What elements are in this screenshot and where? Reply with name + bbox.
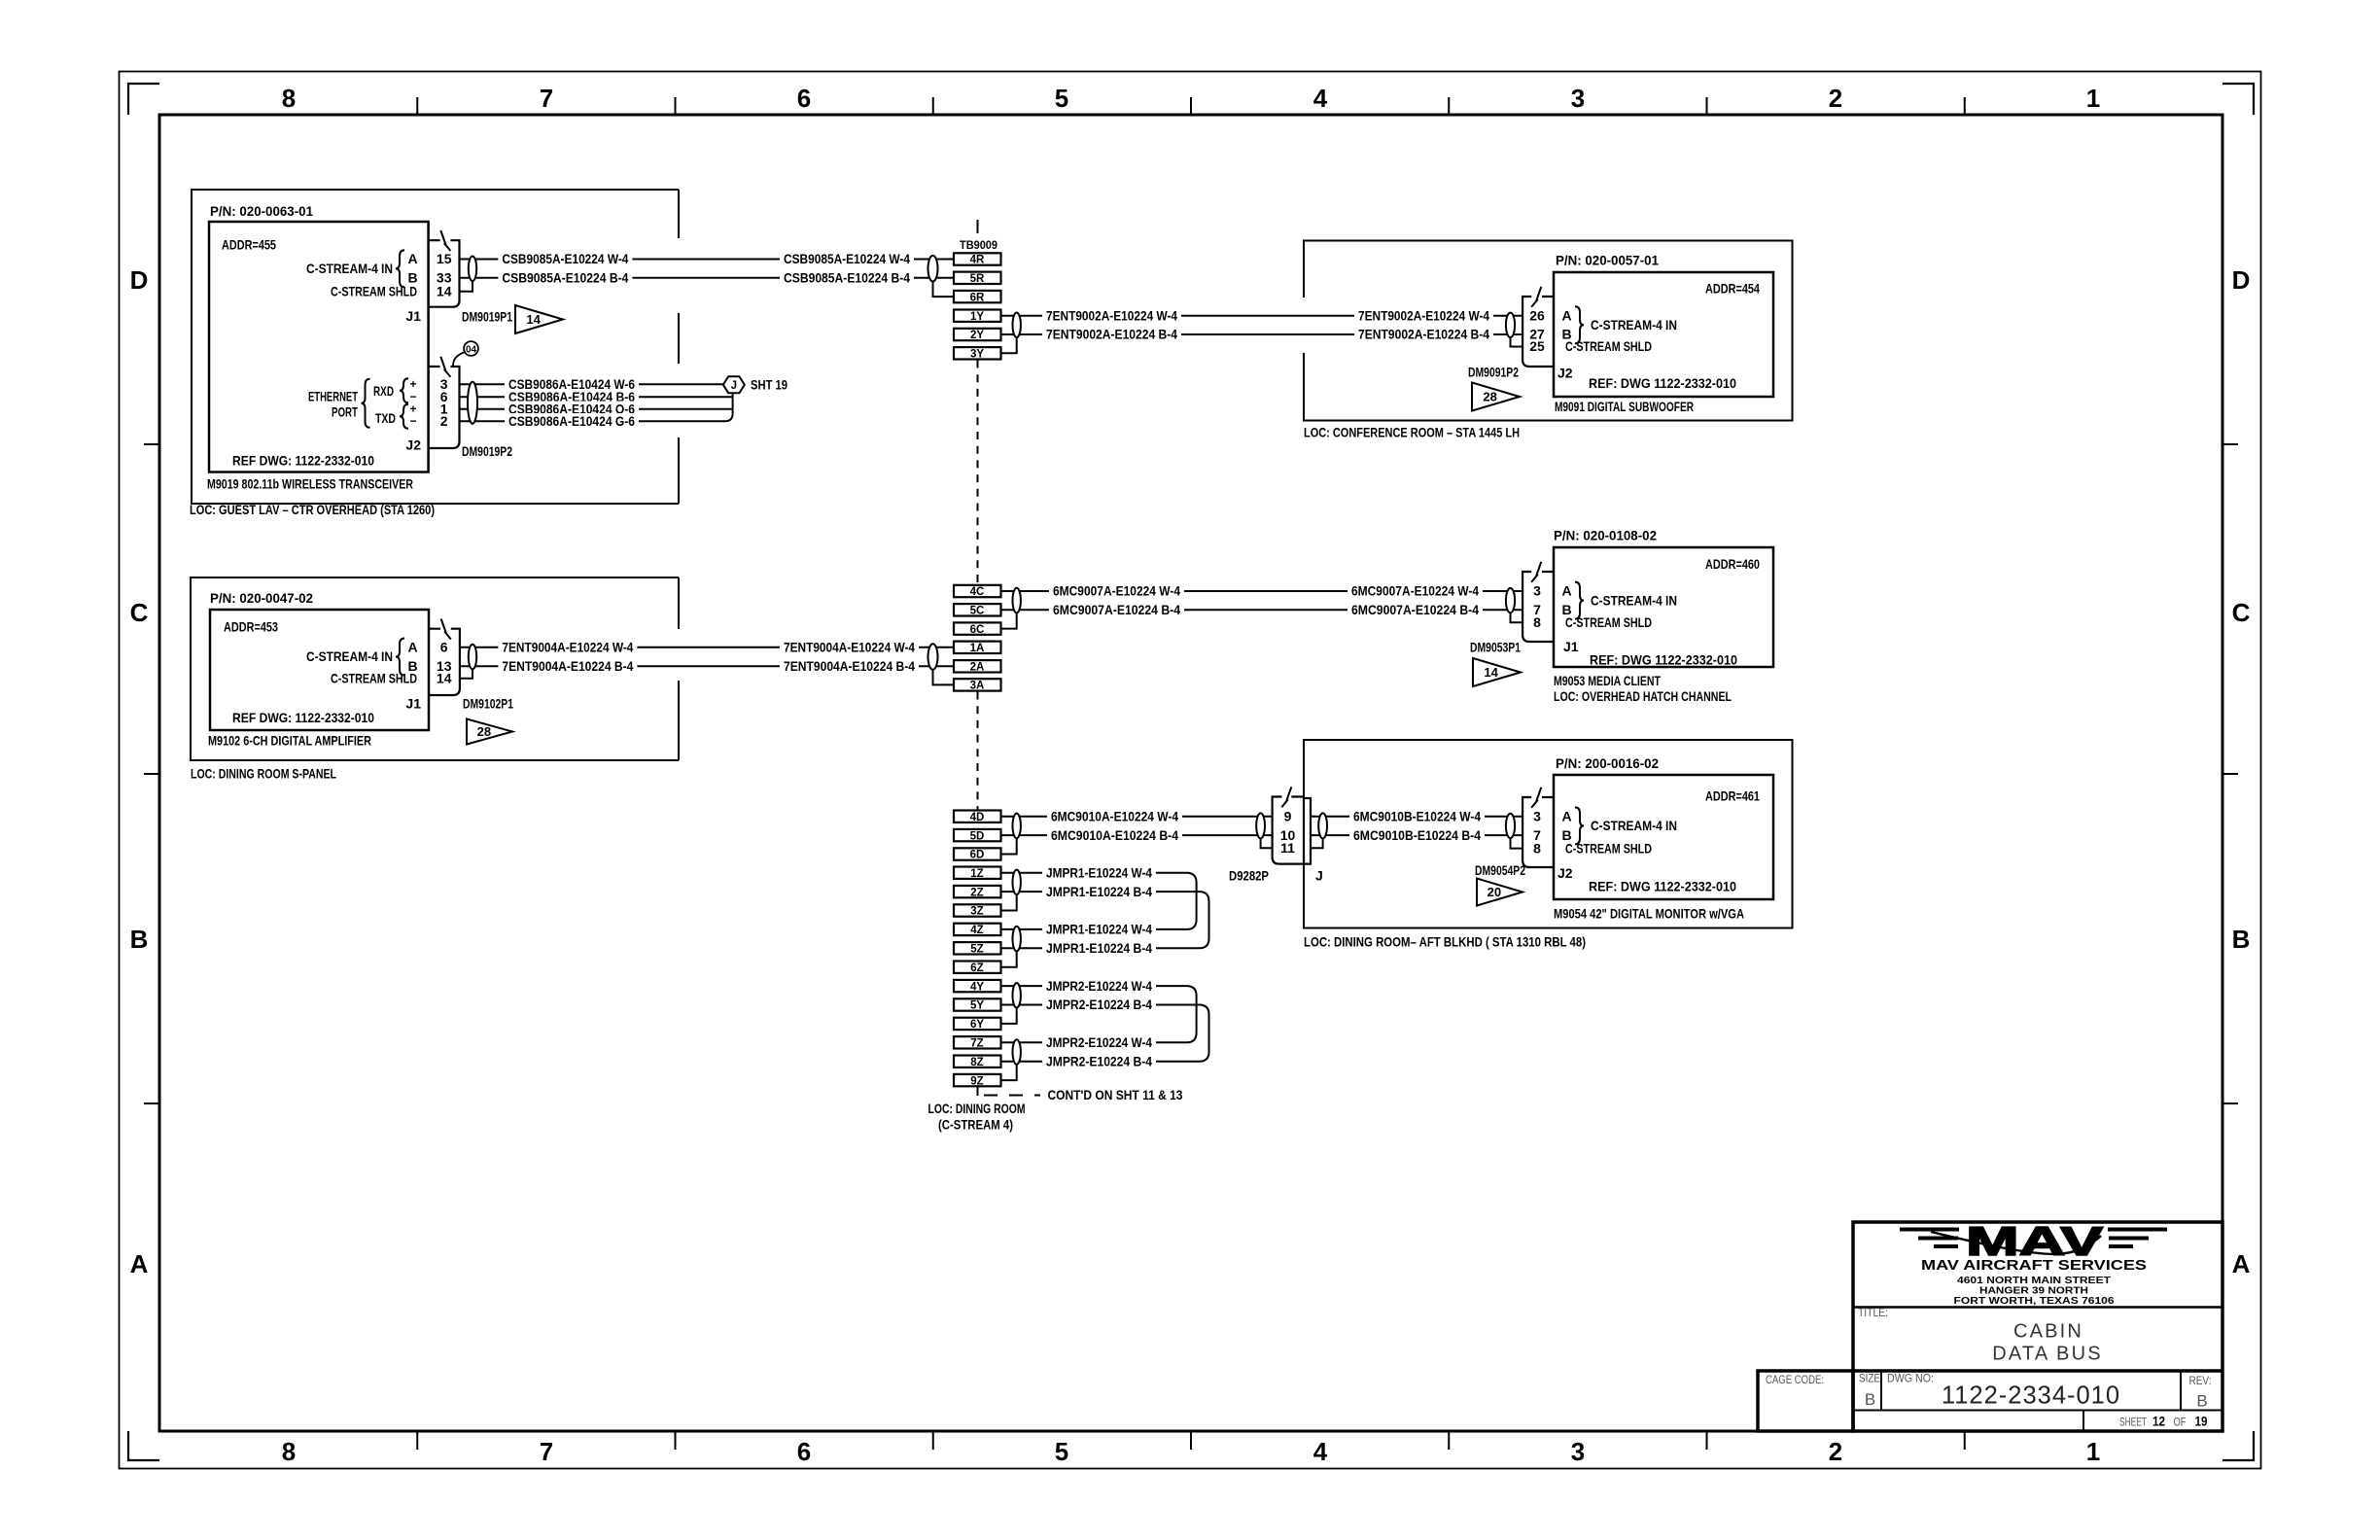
- svg-text:04: 04: [466, 344, 477, 355]
- wire label 7ENT9002A-E10224 W-4 (second): [1354, 308, 1493, 324]
- svg-text:PORT: PORT: [332, 403, 358, 419]
- svg-text:J1: J1: [405, 308, 421, 324]
- MAV logo wing bars left: [1900, 1228, 1959, 1249]
- shield stub M9054 pin8: [1511, 839, 1523, 849]
- svg-text:20: 20: [1487, 885, 1501, 899]
- svg-text:RXD: RXD: [373, 383, 394, 399]
- svg-text:DWG NO:: DWG NO:: [1887, 1374, 1934, 1385]
- connector DM9019P1 shell: [429, 240, 460, 307]
- svg-text:6MC9010A-E10224 W-4: 6MC9010A-E10224 W-4: [1051, 808, 1178, 823]
- wire 6MC9007A W-4 (4C to M9053 pin3): [1001, 590, 1523, 592]
- svg-text:3: 3: [1533, 583, 1541, 599]
- terminal 5D: [954, 829, 1001, 842]
- svg-text:15: 15: [437, 251, 452, 266]
- twisted pair at 4R/5R: [928, 256, 938, 282]
- svg-text:6MC9007A-E10224 B-4: 6MC9007A-E10224 B-4: [1351, 602, 1479, 617]
- svg-text:CSB9085A-E10224 B-4: CSB9085A-E10224 B-4: [502, 270, 628, 286]
- svg-text:J: J: [1315, 868, 1323, 884]
- twisted pair symbol J1: [469, 257, 476, 282]
- terminal 5Z: [954, 942, 1001, 955]
- svg-text:J2: J2: [405, 437, 421, 453]
- shield wire pin14 of J1: [460, 281, 473, 292]
- twisted quad symbol J2: [468, 382, 477, 424]
- wire 6MC9010A B-4 (5D to D9282P pin10): [1001, 834, 1273, 836]
- svg-text:CAGE CODE:: CAGE CODE:: [1766, 1375, 1824, 1386]
- svg-text:7ENT9004A-E10224 B-4: 7ENT9004A-E10224 B-4: [502, 658, 633, 674]
- twisted pair symbol M9102: [469, 645, 476, 670]
- svg-text:TITLE:: TITLE:: [1858, 1308, 1888, 1319]
- receptacle J bar: [1304, 798, 1311, 864]
- twisted pair at 1Y/2Y: [1013, 313, 1021, 338]
- brace A/B M9102: [396, 639, 404, 676]
- svg-text:P/N: 020-0108-02: P/N: 020-0108-02: [1554, 528, 1657, 543]
- circled item 04: [453, 341, 478, 366]
- divider dwg/rev: [2180, 1371, 2182, 1411]
- terminal 4C: [954, 585, 1001, 598]
- ethernet wire W-6 to sheet19 flag: [460, 383, 723, 385]
- terminal 9Z: [954, 1074, 1001, 1087]
- svg-text:1: 1: [2086, 84, 2100, 113]
- svg-text:J2: J2: [1557, 366, 1573, 381]
- twisted pair at 4C/5C: [1013, 588, 1021, 613]
- terminal 5Y: [954, 998, 1001, 1011]
- flag triangle 14 (M9053): [1473, 658, 1521, 686]
- svg-text:M9091 DIGITAL SUBWOOFER: M9091 DIGITAL SUBWOOFER: [1555, 399, 1694, 414]
- svg-text:TB9009: TB9009: [960, 240, 997, 252]
- svg-text:C-STREAM-4 IN: C-STREAM-4 IN: [1591, 317, 1677, 332]
- wire 7ENT9004A B-4 (pin13 to TB9009 2A): [460, 665, 955, 667]
- svg-text:DM9053P1: DM9053P1: [1470, 640, 1521, 655]
- wire label CSB9086A-E10424 B-6: [505, 389, 639, 404]
- shield stub M9091 pin25: [1511, 337, 1523, 347]
- svg-text:7ENT9004A-E10224 B-4: 7ENT9004A-E10224 B-4: [784, 658, 915, 674]
- twisted pair at M9091: [1506, 313, 1515, 337]
- terminal 6Y: [954, 1018, 1001, 1031]
- svg-text:5D: 5D: [970, 830, 985, 842]
- terminal 5R: [954, 272, 1001, 285]
- svg-text:3: 3: [1533, 808, 1541, 823]
- svg-text:6MC9010B-E10224 B-4: 6MC9010B-E10224 B-4: [1353, 827, 1481, 843]
- terminal 4Z: [954, 924, 1001, 936]
- svg-text:D9282P: D9282P: [1229, 868, 1269, 884]
- brace A/B M9091: [1575, 306, 1584, 343]
- dashed continuation line: [984, 1095, 1040, 1097]
- svg-text:6Z: 6Z: [970, 962, 983, 974]
- terminal 6C: [954, 622, 1001, 635]
- label JMPR2-E10224 W-4 (7Z): [1042, 1034, 1156, 1050]
- svg-text:J1: J1: [405, 696, 421, 712]
- terminal 1Y: [954, 310, 1001, 323]
- wire label 7ENT9002A-E10224 B-4 (first): [1042, 327, 1181, 342]
- wire label 6MC9010A-E10224 W-4: [1047, 809, 1182, 824]
- svg-text:14: 14: [437, 671, 452, 686]
- svg-text:A: A: [1561, 307, 1571, 323]
- wire CSB9085A B-4 (pin33 to TB9009 5R): [460, 277, 955, 279]
- wire 6MC9010B B-4 (J to M9054 pin7): [1311, 834, 1522, 836]
- svg-text:B: B: [130, 925, 149, 954]
- svg-text:LOC: DINING ROOM S-PANEL: LOC: DINING ROOM S-PANEL: [191, 766, 336, 782]
- svg-text:J2: J2: [1557, 865, 1573, 881]
- flag triangle 20 (M9054): [1477, 879, 1522, 906]
- svg-text:5: 5: [1055, 1437, 1068, 1466]
- jumper JMPR2 W-4 loop (4Y to 7Z): [1001, 986, 1197, 1042]
- svg-text:CSB9085A-E10224 B-4: CSB9085A-E10224 B-4: [784, 270, 910, 286]
- brace RXD: [400, 378, 408, 402]
- svg-text:5Y: 5Y: [970, 1000, 984, 1012]
- wire label 6MC9007A-E10224 B-4 (second): [1347, 602, 1483, 617]
- M9054 container outline: [1304, 740, 1793, 928]
- svg-text:SIZE: SIZE: [1859, 1374, 1880, 1385]
- twisted pair at 1Z/2Z: [1013, 870, 1021, 895]
- svg-text:B: B: [2232, 925, 2251, 954]
- label JMPR1-E10224 B-4 (5Z): [1042, 940, 1156, 956]
- wire 7ENT9002A B-4 (2Y to M9091 pin27): [1001, 333, 1523, 335]
- dashed bus 3A to 4D: [977, 692, 979, 811]
- shield hook to 3Z: [1001, 894, 1017, 910]
- svg-text:CSB9085A-E10224 W-4: CSB9085A-E10224 W-4: [502, 251, 628, 266]
- shield hook right of J: [1311, 839, 1323, 849]
- svg-text:M9054 42" DIGITAL MONITOR w/VG: M9054 42" DIGITAL MONITOR w/VGA: [1554, 906, 1744, 922]
- svg-text:8Z: 8Z: [970, 1057, 983, 1068]
- svg-text:P/N: 200-0016-02: P/N: 200-0016-02: [1556, 755, 1659, 771]
- svg-text:6: 6: [440, 640, 448, 655]
- svg-text:2Y: 2Y: [970, 330, 984, 341]
- svg-text:DM9102P1: DM9102P1: [463, 696, 513, 712]
- svg-text:A: A: [407, 640, 417, 655]
- shield hook to 3Y: [1001, 337, 1017, 353]
- svg-text:DM9054P2: DM9054P2: [1475, 862, 1525, 878]
- svg-text:ADDR=453: ADDR=453: [224, 619, 278, 635]
- brace A/B M9053: [1575, 582, 1584, 619]
- svg-text:C-STREAM-4 IN: C-STREAM-4 IN: [1591, 818, 1677, 833]
- svg-text:9: 9: [1284, 808, 1292, 823]
- svg-text:1122-2334-010: 1122-2334-010: [1942, 1382, 2120, 1410]
- svg-text:3A: 3A: [970, 681, 985, 692]
- svg-text:14: 14: [1484, 665, 1498, 680]
- wire 6MC9007A B-4 (5C to M9053 pin7): [1001, 609, 1523, 611]
- continuation stub below 9Z: [977, 1086, 979, 1096]
- terminal 4D: [954, 811, 1001, 823]
- svg-text:6MC9007A-E10224 W-4: 6MC9007A-E10224 W-4: [1053, 583, 1180, 599]
- svg-text:REF: DWG 1122-2332-010: REF: DWG 1122-2332-010: [1590, 652, 1737, 668]
- svg-text:4C: 4C: [970, 586, 985, 598]
- svg-text:4R: 4R: [970, 255, 985, 266]
- shield wire pin14 of M9102 J1: [460, 670, 473, 679]
- svg-text:6MC9007A-E10224 W-4: 6MC9007A-E10224 W-4: [1351, 583, 1479, 599]
- M9053 device box: [1554, 547, 1773, 667]
- connector DM9091P2 shell: [1522, 297, 1554, 367]
- dashed bus 3Y to 4C: [977, 361, 979, 585]
- terminal 4Y: [954, 980, 1001, 993]
- svg-text:JMPR1-E10224 B-4: JMPR1-E10224 B-4: [1046, 940, 1152, 956]
- corner trim mark top-left: [128, 84, 159, 115]
- M9019 device box: [209, 222, 429, 472]
- svg-text:3Z: 3Z: [970, 906, 983, 918]
- terminal 6Z: [954, 962, 1001, 974]
- svg-text:4: 4: [1313, 1437, 1328, 1466]
- jumper JMPR2 B-4 loop (5Y to 8Z): [1001, 1005, 1209, 1062]
- svg-text:19: 19: [2195, 1414, 2208, 1429]
- left border zone tick marks: [144, 444, 159, 1103]
- terminal 7Z: [954, 1036, 1001, 1049]
- svg-text:7: 7: [540, 1437, 553, 1466]
- right border zone tick marks: [2222, 444, 2238, 1103]
- svg-text:ADDR=455: ADDR=455: [222, 237, 276, 253]
- shield stub M9053 pin8: [1511, 612, 1523, 622]
- svg-text:6: 6: [797, 1437, 811, 1466]
- twisted pair at 4D/5D: [1013, 814, 1021, 839]
- svg-text:C-STREAM-4 IN: C-STREAM-4 IN: [1591, 592, 1677, 608]
- terminal 1Z: [954, 867, 1001, 880]
- svg-text:LOC: OVERHEAD HATCH CHANNEL: LOC: OVERHEAD HATCH CHANNEL: [1554, 688, 1732, 704]
- wire label CSB9085A-E10224 W-4 (second): [780, 251, 914, 266]
- svg-text:CABIN: CABIN: [2013, 1321, 2083, 1343]
- svg-text:6D: 6D: [970, 850, 985, 861]
- svg-text:8: 8: [1533, 840, 1541, 856]
- svg-text:JMPR2-E10224 W-4: JMPR2-E10224 W-4: [1046, 978, 1152, 994]
- terminal 1A: [954, 642, 1001, 654]
- svg-text:JMPR2-E10224 B-4: JMPR2-E10224 B-4: [1046, 1053, 1152, 1068]
- ethernet wire B-6: [460, 396, 733, 398]
- M9102 device box: [210, 610, 429, 730]
- wire label 7ENT9004A-E10224 W-4 (first): [498, 640, 637, 655]
- twisted pair at M9054: [1506, 814, 1515, 838]
- wire label CSB9085A-E10224 W-4 (first): [498, 251, 632, 266]
- svg-text:1Y: 1Y: [970, 311, 984, 323]
- svg-text:6MC9007A-E10224 B-4: 6MC9007A-E10224 B-4: [1053, 602, 1180, 617]
- M9091 device box: [1554, 272, 1773, 397]
- M9091 container outline: [1304, 241, 1793, 421]
- svg-text:ADDR=460: ADDR=460: [1705, 556, 1760, 572]
- svg-text:B: B: [2196, 1392, 2207, 1411]
- wire label 7ENT9004A-E10224 B-4 (second): [780, 658, 919, 674]
- svg-text:JMPR2-E10224 W-4: JMPR2-E10224 W-4: [1046, 1034, 1152, 1050]
- svg-text:8: 8: [282, 84, 296, 113]
- twisted pair right of J: [1318, 813, 1327, 838]
- svg-text:D: D: [2232, 265, 2251, 295]
- svg-text:MAV AIRCRAFT SERVICES: MAV AIRCRAFT SERVICES: [1921, 1258, 2147, 1274]
- corner trim mark top-right: [2222, 84, 2254, 115]
- svg-text:4Y: 4Y: [970, 981, 984, 993]
- svg-text:B: B: [1865, 1390, 1875, 1409]
- svg-text:A: A: [130, 1249, 149, 1278]
- jumper JMPR1 W-4 loop (1Z to 4Z): [1001, 873, 1197, 929]
- svg-text:2: 2: [440, 413, 448, 429]
- wire label CSB9086A-E10424 G-6: [505, 413, 639, 429]
- svg-text:J1: J1: [1563, 639, 1579, 654]
- svg-text:8: 8: [1533, 614, 1541, 630]
- svg-text:M9019 802.11b WIRELESS TRANSCE: M9019 802.11b WIRELESS TRANSCEIVER: [207, 476, 413, 492]
- connector DM9102P1 shell: [429, 629, 460, 695]
- cage code box: [1758, 1371, 1853, 1431]
- svg-text:28: 28: [1483, 390, 1496, 404]
- label JMPR1-E10224 W-4 (1Z): [1042, 865, 1156, 881]
- wire 7ENT9002A W-4 (1Y to M9091 pin26): [1001, 315, 1523, 317]
- svg-text:JMPR1-E10224 W-4: JMPR1-E10224 W-4: [1046, 922, 1152, 937]
- svg-text:REF DWG: 1122-2332-010: REF DWG: 1122-2332-010: [232, 710, 374, 725]
- bottom zone numbers 8..1: [282, 1437, 2100, 1466]
- label JMPR2-E10224 B-4 (5Y): [1042, 997, 1156, 1012]
- terminal 5C: [954, 604, 1001, 616]
- wire CSB9085A W-4 (pin15 to TB9009 4R): [460, 259, 955, 261]
- title block outline: [1853, 1222, 2222, 1431]
- ethernet wire G-6: [460, 413, 733, 421]
- svg-text:2: 2: [1829, 84, 1842, 113]
- title block logo/title divider: [1853, 1306, 2222, 1309]
- ethernet merge vertical to flag: [732, 393, 734, 413]
- svg-text:REF DWG: 1122-2332-010: REF DWG: 1122-2332-010: [232, 453, 374, 469]
- wire 6MC9010B W-4 (J to M9054 pin3): [1311, 816, 1522, 818]
- svg-text:7ENT9002A-E10224 W-4: 7ENT9002A-E10224 W-4: [1046, 307, 1177, 323]
- svg-text:CSB9085A-E10224 W-4: CSB9085A-E10224 W-4: [784, 251, 910, 266]
- divider size/dwg: [1880, 1371, 1882, 1411]
- svg-text:ADDR=454: ADDR=454: [1705, 281, 1760, 297]
- svg-text:DATA BUS: DATA BUS: [1992, 1344, 2103, 1365]
- wire label CSB9086A-E10424 O-6: [505, 402, 639, 417]
- wire label CSB9086A-E10424 W-6: [505, 376, 639, 392]
- wire 7ENT9004A W-4 (pin6 to TB9009 1A): [460, 647, 955, 648]
- terminal 6R: [954, 291, 1001, 303]
- svg-text:1Z: 1Z: [970, 868, 983, 880]
- shield hook to 6R: [933, 282, 955, 297]
- wire label 7ENT9004A-E10224 W-4 (second): [780, 640, 919, 655]
- brace TXD: [400, 404, 408, 429]
- svg-text:P/N: 020-0063-01: P/N: 020-0063-01: [210, 203, 313, 219]
- svg-text:REF: DWG 1122-2332-010: REF: DWG 1122-2332-010: [1589, 879, 1736, 894]
- top zone numbers 8..1: [282, 84, 2100, 113]
- svg-text:C-STREAM-4 IN: C-STREAM-4 IN: [306, 648, 393, 664]
- wire label 6MC9007A-E10224 B-4 (first): [1049, 602, 1184, 617]
- svg-text:C-STREAM SHLD: C-STREAM SHLD: [331, 283, 417, 298]
- svg-text:D: D: [130, 265, 149, 295]
- off-sheet hexagon flag J SHT 19: [723, 376, 745, 393]
- svg-text:MAV: MAV: [1966, 1218, 2103, 1264]
- twisted pair at M9053: [1506, 588, 1515, 612]
- svg-text:CONT'D ON SHT 11 & 13: CONT'D ON SHT 11 & 13: [1048, 1087, 1183, 1102]
- shield hook to 3A: [933, 670, 955, 685]
- svg-text:C-STREAM SHLD: C-STREAM SHLD: [331, 671, 417, 686]
- svg-text:6: 6: [797, 84, 811, 113]
- svg-text:14: 14: [526, 312, 541, 327]
- divider sheet row: [2082, 1411, 2084, 1432]
- svg-text:JMPR2-E10224 B-4: JMPR2-E10224 B-4: [1046, 997, 1152, 1012]
- flag triangle 28 (M9091): [1472, 383, 1520, 411]
- svg-text:1A: 1A: [970, 643, 985, 654]
- svg-text:TXD: TXD: [375, 410, 396, 426]
- svg-text:M9102 6-CH DIGITAL AMPLIFIER: M9102 6-CH DIGITAL AMPLIFIER: [208, 733, 371, 749]
- top border zone tick marks: [417, 97, 1965, 115]
- svg-text:LOC: DINING ROOM– AFT BLKHD (: LOC: DINING ROOM– AFT BLKHD ( STA 1310 R…: [1304, 934, 1586, 950]
- MAV logo wing bars right: [2108, 1228, 2167, 1249]
- wire label 6MC9010A-E10224 B-4: [1047, 827, 1182, 843]
- title block title/size divider: [1853, 1369, 2222, 1373]
- shield hook to 6Z: [1001, 951, 1017, 966]
- svg-text:JMPR1-E10224 B-4: JMPR1-E10224 B-4: [1046, 884, 1152, 899]
- MAV logo swoosh: [1931, 1232, 2101, 1254]
- svg-text:2A: 2A: [970, 662, 985, 674]
- svg-text:SHT 19: SHT 19: [751, 376, 787, 392]
- wire label CSB9085A-E10224 B-4 (second): [780, 270, 914, 286]
- terminal 2Z: [954, 886, 1001, 898]
- svg-text:25: 25: [1529, 338, 1545, 354]
- wire label 7ENT9004A-E10224 B-4 (first): [498, 658, 637, 674]
- terminal 6D: [954, 848, 1001, 860]
- svg-text:CSB9086A-E10424 G-6: CSB9086A-E10424 G-6: [508, 413, 635, 429]
- svg-text:8: 8: [282, 1437, 296, 1466]
- wire label 6MC9010B-E10224 W-4: [1349, 809, 1485, 824]
- svg-text:A: A: [1561, 583, 1571, 599]
- svg-text:REF: DWG 1122-2332-010: REF: DWG 1122-2332-010: [1589, 375, 1736, 391]
- svg-text:C-STREAM SHLD: C-STREAM SHLD: [1565, 840, 1652, 856]
- svg-text:6MC9010B-E10224 W-4: 6MC9010B-E10224 W-4: [1353, 808, 1481, 823]
- terminal 3Y: [954, 347, 1001, 360]
- label JMPR2-E10224 W-4 (4Y): [1042, 978, 1156, 994]
- svg-text:(C-STREAM 4): (C-STREAM 4): [938, 1117, 1013, 1133]
- sheet inner border: [159, 115, 2222, 1431]
- svg-text:DM9019P1: DM9019P1: [462, 309, 512, 325]
- title block dwg/sheet divider: [1853, 1410, 2222, 1412]
- svg-text:7Z: 7Z: [970, 1038, 983, 1050]
- svg-text:7ENT9002A-E10224 B-4: 7ENT9002A-E10224 B-4: [1046, 327, 1177, 342]
- svg-text:C: C: [130, 598, 149, 627]
- svg-text:5R: 5R: [970, 273, 985, 285]
- svg-text:FORT WORTH, TEXAS 76106: FORT WORTH, TEXAS 76106: [1954, 1295, 2115, 1307]
- right zone letters D..A: [2232, 265, 2251, 1278]
- svg-text:3: 3: [1571, 84, 1585, 113]
- terminal 2A: [954, 660, 1001, 673]
- wire label 6MC9007A-E10224 W-4 (second): [1347, 583, 1483, 599]
- connector DM9053P1 shell: [1522, 572, 1554, 642]
- wire label 6MC9007A-E10224 W-4 (first): [1049, 583, 1184, 599]
- svg-text:6MC9010A-E10224 B-4: 6MC9010A-E10224 B-4: [1051, 827, 1178, 843]
- svg-text:28: 28: [477, 724, 491, 739]
- terminal 4R: [954, 253, 1001, 265]
- connector DM9054P2 shell: [1522, 797, 1554, 867]
- svg-text:P/N: 020-0057-01: P/N: 020-0057-01: [1556, 253, 1659, 268]
- svg-text:6R: 6R: [970, 292, 985, 303]
- shield hook into D9282P pin11: [1261, 839, 1273, 849]
- svg-text:5Z: 5Z: [970, 944, 983, 956]
- svg-text:LOC: DINING ROOM: LOC: DINING ROOM: [928, 1101, 1026, 1116]
- svg-text:2: 2: [1829, 1437, 1842, 1466]
- svg-text:DM9019P2: DM9019P2: [462, 443, 512, 459]
- svg-text:OF: OF: [2174, 1416, 2187, 1429]
- svg-text:C-STREAM SHLD: C-STREAM SHLD: [1565, 614, 1652, 630]
- twisted pair at 4Y/5Y: [1013, 983, 1021, 1008]
- svg-text:A: A: [407, 251, 417, 266]
- svg-text:REV:: REV:: [2189, 1376, 2212, 1387]
- svg-text:14: 14: [437, 283, 452, 298]
- svg-text:4Z: 4Z: [970, 925, 983, 936]
- svg-text:J: J: [731, 380, 737, 392]
- shield hook to 6Y: [1001, 1008, 1017, 1024]
- svg-text:−: −: [409, 414, 416, 428]
- ethernet group brace: [362, 379, 370, 428]
- terminal 3A: [954, 679, 1001, 691]
- svg-text:6C: 6C: [970, 624, 985, 636]
- svg-text:11: 11: [1280, 840, 1295, 856]
- twisted pair at 7Z/8Z: [1013, 1039, 1021, 1065]
- svg-text:3: 3: [1571, 1437, 1585, 1466]
- svg-text:+: +: [409, 377, 416, 391]
- svg-text:5C: 5C: [970, 606, 985, 617]
- wire label 7ENT9002A-E10224 B-4 (second): [1354, 327, 1493, 342]
- flag triangle 28 (M9102): [467, 719, 512, 745]
- twisted pair left of D9282P: [1256, 813, 1265, 838]
- wire label 7ENT9002A-E10224 W-4 (first): [1042, 308, 1181, 324]
- wire label CSB9085A-E10224 B-4 (first): [498, 270, 632, 286]
- continuation tick above TB9009: [977, 220, 979, 233]
